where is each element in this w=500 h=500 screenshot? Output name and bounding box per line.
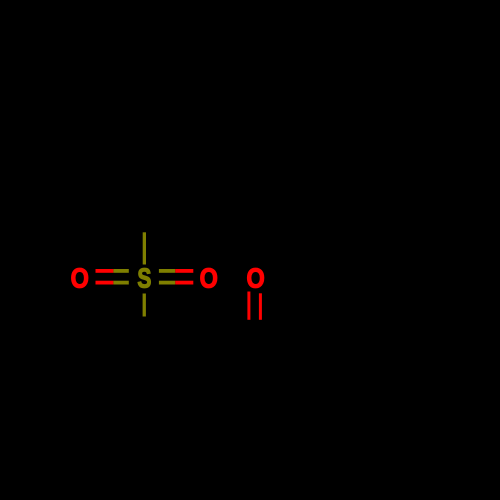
bond S=O left, upper line, red half (O side)	[96, 269, 114, 273]
bond C=O carbonyl, right line, red segment	[259, 293, 262, 320]
svg-text:O: O	[200, 264, 218, 294]
bond S=O left, upper line, olive half (S side)	[113, 269, 128, 273]
svg-text:S: S	[137, 264, 151, 294]
bond S=O right, lower line, red half (O side)	[175, 281, 193, 285]
bond S=O left, lower line, olive half (S side)	[113, 281, 128, 285]
bond C=O carbonyl, left line, red segment	[247, 292, 250, 320]
svg-text:O: O	[71, 264, 89, 294]
svg-text:O: O	[246, 264, 264, 294]
bond S=O left, lower line, red half (O side)	[96, 281, 114, 285]
bond S=O right, lower line, olive half (S side)	[159, 281, 175, 285]
bond C-S lower (sulfur to methyl), olive segment	[143, 294, 146, 317]
bond S=O right, upper line, olive half (S side)	[159, 269, 175, 273]
bond C-S upper (methylene to sulfur), olive segment	[143, 232, 146, 264]
bond S=O right, upper line, red half (O side)	[175, 269, 193, 273]
